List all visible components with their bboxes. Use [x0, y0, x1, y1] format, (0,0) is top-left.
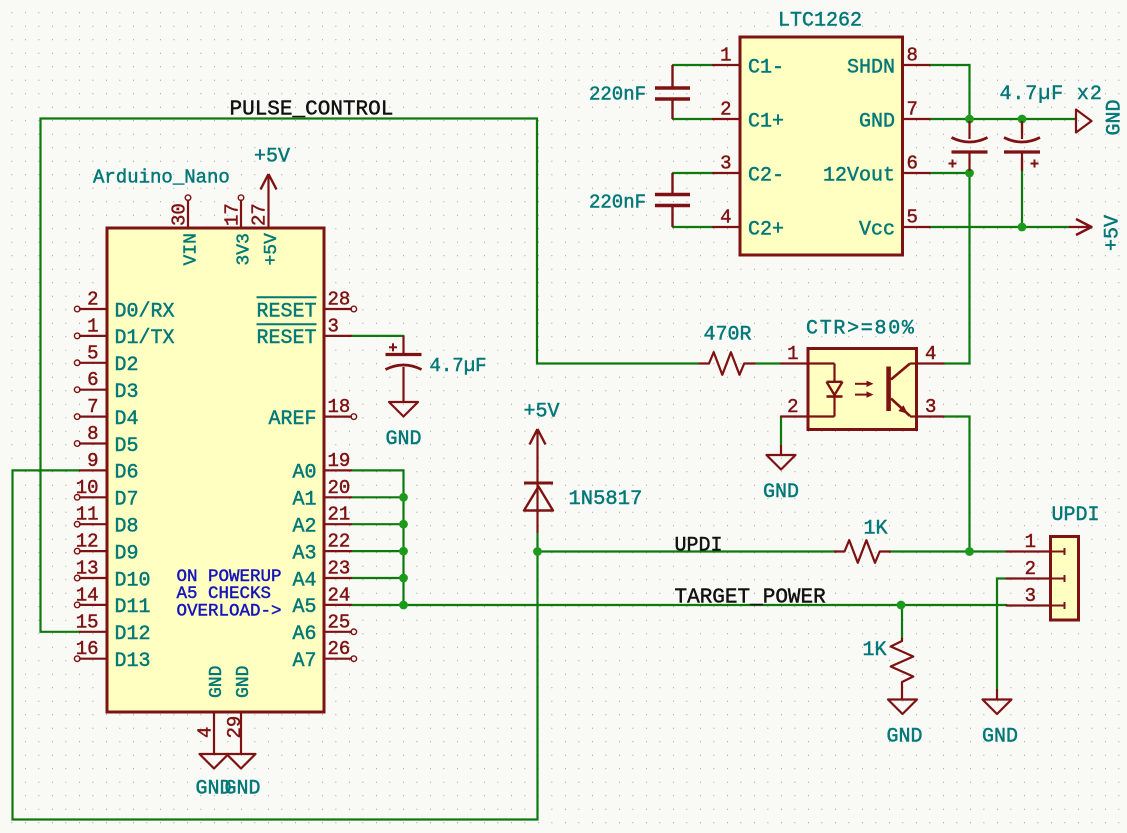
svg-text:D10: D10	[115, 569, 151, 592]
svg-text:AREF: AREF	[268, 408, 316, 431]
svg-text:A0: A0	[292, 462, 316, 485]
svg-text:12: 12	[76, 531, 99, 553]
svg-text:D5: D5	[115, 435, 139, 458]
svg-text:1: 1	[87, 315, 98, 337]
svg-text:A7: A7	[292, 650, 316, 673]
svg-text:C1+: C1+	[748, 110, 784, 133]
svg-text:D8: D8	[115, 516, 139, 539]
svg-text:2: 2	[787, 396, 798, 418]
svg-text:15: 15	[76, 611, 99, 633]
svg-text:2: 2	[87, 289, 98, 311]
svg-text:+5V: +5V	[262, 233, 282, 266]
svg-text:8: 8	[907, 45, 918, 67]
svg-text:D4: D4	[115, 408, 139, 431]
svg-text:220nF: 220nF	[589, 192, 646, 214]
svg-text:RESET: RESET	[256, 300, 316, 323]
svg-text:4.7µF x2: 4.7µF x2	[1000, 83, 1103, 106]
svg-text:30: 30	[169, 203, 191, 226]
svg-text:220nF: 220nF	[589, 84, 646, 106]
svg-text:4: 4	[195, 727, 217, 738]
svg-text:A5: A5	[292, 596, 316, 619]
svg-text:7: 7	[907, 99, 918, 121]
svg-text:14: 14	[76, 584, 99, 606]
svg-text:17: 17	[222, 203, 244, 226]
svg-text:6: 6	[907, 153, 918, 175]
svg-text:A1: A1	[292, 489, 316, 512]
svg-text:29: 29	[224, 716, 246, 739]
svg-text:PULSE_CONTROL: PULSE_CONTROL	[230, 99, 394, 122]
svg-text:1: 1	[720, 45, 731, 67]
svg-text:+5V: +5V	[254, 146, 290, 169]
svg-text:16: 16	[76, 638, 99, 660]
svg-text:5: 5	[907, 207, 918, 229]
svg-text:20: 20	[328, 477, 351, 499]
svg-text:GND: GND	[207, 666, 227, 698]
svg-text:4.7µF: 4.7µF	[430, 355, 487, 377]
svg-text:10: 10	[76, 477, 99, 499]
svg-text:3: 3	[925, 396, 936, 418]
svg-text:UPDI: UPDI	[675, 535, 723, 558]
svg-text:26: 26	[328, 638, 351, 660]
svg-text:Vcc: Vcc	[859, 218, 895, 241]
svg-text:A2: A2	[292, 516, 316, 539]
svg-text:GND: GND	[1104, 99, 1127, 135]
svg-text:25: 25	[328, 611, 351, 633]
svg-text:28: 28	[328, 289, 351, 311]
svg-text:3V3: 3V3	[235, 233, 255, 265]
svg-text:GND: GND	[763, 481, 799, 504]
svg-text:+5V: +5V	[1102, 215, 1125, 251]
svg-text:12Vout: 12Vout	[823, 164, 895, 187]
svg-text:3: 3	[720, 153, 731, 175]
svg-text:6: 6	[87, 369, 98, 391]
svg-text:GND: GND	[224, 778, 260, 801]
svg-text:7: 7	[87, 396, 98, 418]
svg-text:CTR>=80%: CTR>=80%	[806, 318, 916, 341]
svg-text:5: 5	[87, 342, 98, 364]
svg-text:+5V: +5V	[524, 401, 560, 424]
svg-text:C2-: C2-	[748, 164, 784, 187]
svg-text:D3: D3	[115, 381, 139, 404]
svg-text:GND: GND	[385, 428, 421, 451]
svg-text:8: 8	[87, 423, 98, 445]
svg-text:A4: A4	[292, 569, 316, 592]
svg-text:UPDI: UPDI	[1052, 504, 1100, 527]
svg-text:OVERLOAD->: OVERLOAD->	[177, 602, 282, 622]
svg-text:3: 3	[1025, 585, 1036, 607]
svg-text:D6: D6	[115, 462, 139, 485]
svg-text:2: 2	[1025, 558, 1036, 580]
svg-text:VIN: VIN	[182, 233, 202, 265]
svg-text:C1-: C1-	[748, 56, 784, 79]
svg-text:D0/RX: D0/RX	[115, 300, 175, 323]
svg-text:TARGET_POWER: TARGET_POWER	[675, 587, 827, 610]
svg-text:D11: D11	[115, 596, 151, 619]
svg-text:SHDN: SHDN	[847, 56, 895, 79]
svg-text:3: 3	[328, 315, 339, 337]
svg-text:4: 4	[720, 207, 731, 229]
svg-text:27: 27	[249, 203, 271, 226]
svg-text:D2: D2	[115, 354, 139, 377]
svg-text:GND: GND	[886, 726, 922, 749]
svg-text:22: 22	[328, 531, 351, 553]
svg-text:RESET: RESET	[256, 327, 316, 350]
svg-text:470R: 470R	[704, 324, 752, 347]
svg-text:1N5817: 1N5817	[569, 488, 643, 511]
svg-text:1K: 1K	[863, 639, 887, 662]
svg-text:GND: GND	[982, 726, 1018, 749]
svg-text:13: 13	[76, 558, 99, 580]
svg-text:A6: A6	[292, 623, 316, 646]
svg-text:Arduino_Nano: Arduino_Nano	[93, 167, 230, 189]
svg-text:C2+: C2+	[748, 218, 784, 241]
svg-text:21: 21	[328, 504, 351, 526]
svg-text:LTC1262: LTC1262	[778, 10, 862, 33]
svg-text:24: 24	[328, 584, 351, 606]
svg-text:23: 23	[328, 558, 351, 580]
svg-text:19: 19	[328, 450, 351, 472]
svg-text:A3: A3	[292, 542, 316, 565]
svg-text:D7: D7	[115, 489, 139, 512]
svg-text:D13: D13	[115, 650, 151, 673]
svg-text:4: 4	[925, 343, 936, 365]
svg-text:GND: GND	[859, 110, 895, 133]
svg-text:1K: 1K	[864, 518, 888, 541]
svg-text:D1/TX: D1/TX	[115, 327, 175, 350]
svg-text:D9: D9	[115, 542, 139, 565]
svg-text:9: 9	[87, 450, 98, 472]
svg-text:2: 2	[720, 99, 731, 121]
svg-text:1: 1	[787, 343, 798, 365]
svg-text:11: 11	[76, 504, 99, 526]
svg-text:1: 1	[1025, 531, 1036, 553]
svg-text:D12: D12	[115, 623, 151, 646]
svg-text:18: 18	[328, 396, 351, 418]
svg-text:GND: GND	[234, 666, 254, 698]
